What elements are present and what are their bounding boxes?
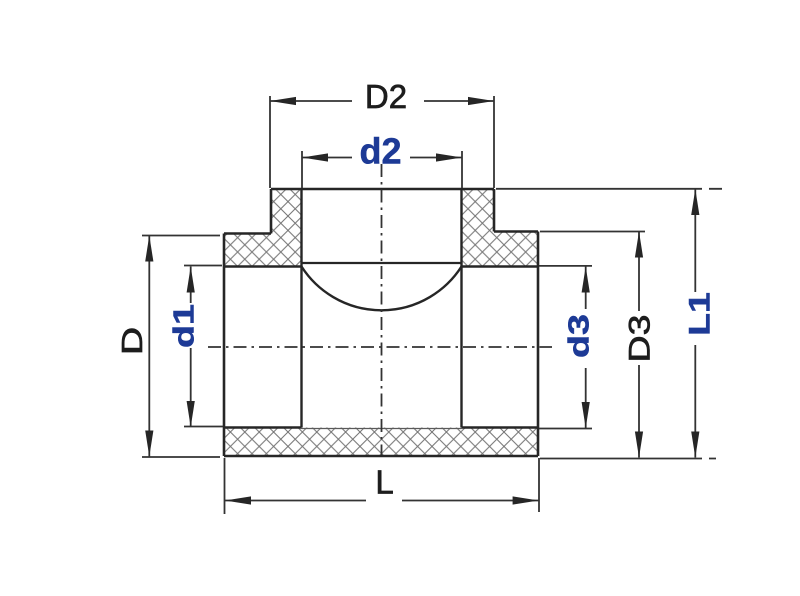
dimension D2 xyxy=(270,96,494,188)
svg-text:d1: d1 xyxy=(168,304,200,348)
dimension L (bottom) xyxy=(225,458,540,514)
run bore bottom wall (socket sections) xyxy=(224,426,538,428)
dimension D3 (right outer) xyxy=(540,232,645,458)
dimension d3 (right bore) xyxy=(539,266,592,429)
svg-text:L: L xyxy=(375,464,393,501)
svg-text:d3: d3 xyxy=(563,314,595,358)
svg-text:d2: d2 xyxy=(359,131,401,172)
svg-text:D2: D2 xyxy=(365,78,407,115)
hatched wall section top-left xyxy=(224,189,302,267)
svg-text:D: D xyxy=(117,327,149,355)
socket bore wall left (top socket bore / left socket depth) xyxy=(300,189,302,428)
dimension D (left outer) xyxy=(142,236,220,458)
fitting outer outline xyxy=(224,189,538,456)
right socket bore top wall xyxy=(462,265,539,267)
top socket shoulder line xyxy=(302,262,462,264)
hatched wall section bottom xyxy=(224,428,538,457)
left socket bore top wall xyxy=(224,265,302,267)
saddle curve (branch bore meets run bore) xyxy=(302,267,462,311)
socket bore wall right (top socket bore / right socket depth) xyxy=(460,189,462,428)
hatched wall section top-right xyxy=(462,189,539,267)
dimension L1 (right overall) xyxy=(496,189,722,459)
vertical centerline xyxy=(381,164,383,455)
horizontal centerline xyxy=(208,346,552,348)
svg-text:D3: D3 xyxy=(623,315,657,363)
svg-text:L1: L1 xyxy=(683,292,717,336)
run bore bottom wall (center section, thin) xyxy=(302,428,462,430)
dimension d2 xyxy=(302,151,462,188)
dimension d1 (left bore) xyxy=(184,266,223,428)
